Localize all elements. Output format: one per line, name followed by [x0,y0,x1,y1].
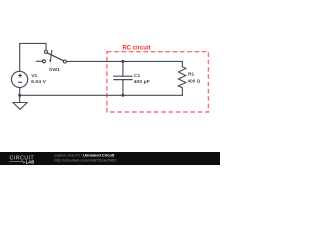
svg-text:RC circuit: RC circuit [123,46,151,52]
svg-text:LAB: LAB [26,159,34,164]
svg-text:V1: V1 [31,73,37,79]
svg-text:400 µF: 400 µF [134,79,150,85]
svg-text:SW1: SW1 [49,67,60,73]
svg-text:http://circuitlab.com/c49j72bd: http://circuitlab.com/c49j72bde2bl62 [54,157,116,162]
svg-text:C1: C1 [134,73,141,79]
svg-text:6.04 V: 6.04 V [31,79,47,85]
svg-text:400 Ω: 400 Ω [188,79,201,85]
svg-text:R1: R1 [188,72,195,78]
